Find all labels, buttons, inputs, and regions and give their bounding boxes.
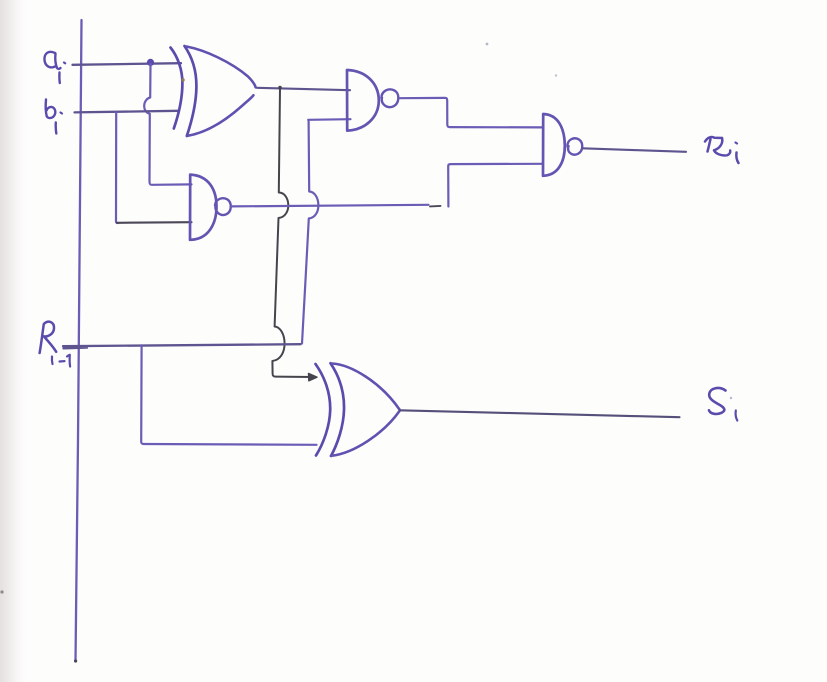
node: junction a branch: [147, 59, 154, 66]
margin rule line: [76, 20, 82, 661]
arrowhead into XOR2: [309, 373, 318, 380]
nand gate N4 bubble: [567, 138, 582, 154]
xor gate X2 body: [332, 364, 400, 410]
wire: purple vertical carrying R(i-1) up to NAND3 lower input (with hop): [302, 121, 318, 344]
nand gate N3 body: [347, 70, 379, 131]
wire: X1 output to NAND3 input: [257, 88, 350, 90]
node: tap on X1 output: [278, 86, 282, 90]
nand gate N2 bubble: [215, 198, 231, 215]
xor gate X1 (a xor b) input arcs: [171, 48, 183, 129]
xor gate X1 body: [187, 47, 256, 88]
nand gate N4 body: [543, 114, 565, 176]
wire: NAND4 lower input from N2 output net: [448, 164, 542, 207]
wire: a branch down to NAND2 top input (hops over b wire): [144, 64, 191, 185]
paper speck: [181, 78, 184, 81]
wire: R_i-1 input: [63, 344, 301, 348]
wire: input b: [75, 111, 179, 113]
wire: dark vertical from X1 output down to XOR2 top input (with hops): [272, 89, 312, 378]
nand gate N3 bubble: [381, 89, 398, 107]
wire: input a: [73, 63, 182, 65]
wire: R_i-1 branch down then right to XOR2 lower input: [141, 345, 316, 445]
label a_i: [44, 52, 65, 83]
wire: N3 output to NAND4 top input: [400, 98, 543, 128]
xor gate X2 input arcs: [316, 364, 331, 456]
nand gate N2 (a nand b) body: [190, 175, 217, 240]
label R_i: [705, 137, 739, 163]
wire: N2 output: [231, 205, 429, 207]
wire: X2 output to S_i: [400, 410, 680, 417]
label R_i-1: [40, 322, 71, 367]
wire: b branch down then right to NAND2 lower input: [116, 112, 118, 223]
label b_i: [46, 100, 62, 134]
label S_i: [709, 388, 737, 420]
wire: N4 output to R_i: [583, 148, 687, 152]
